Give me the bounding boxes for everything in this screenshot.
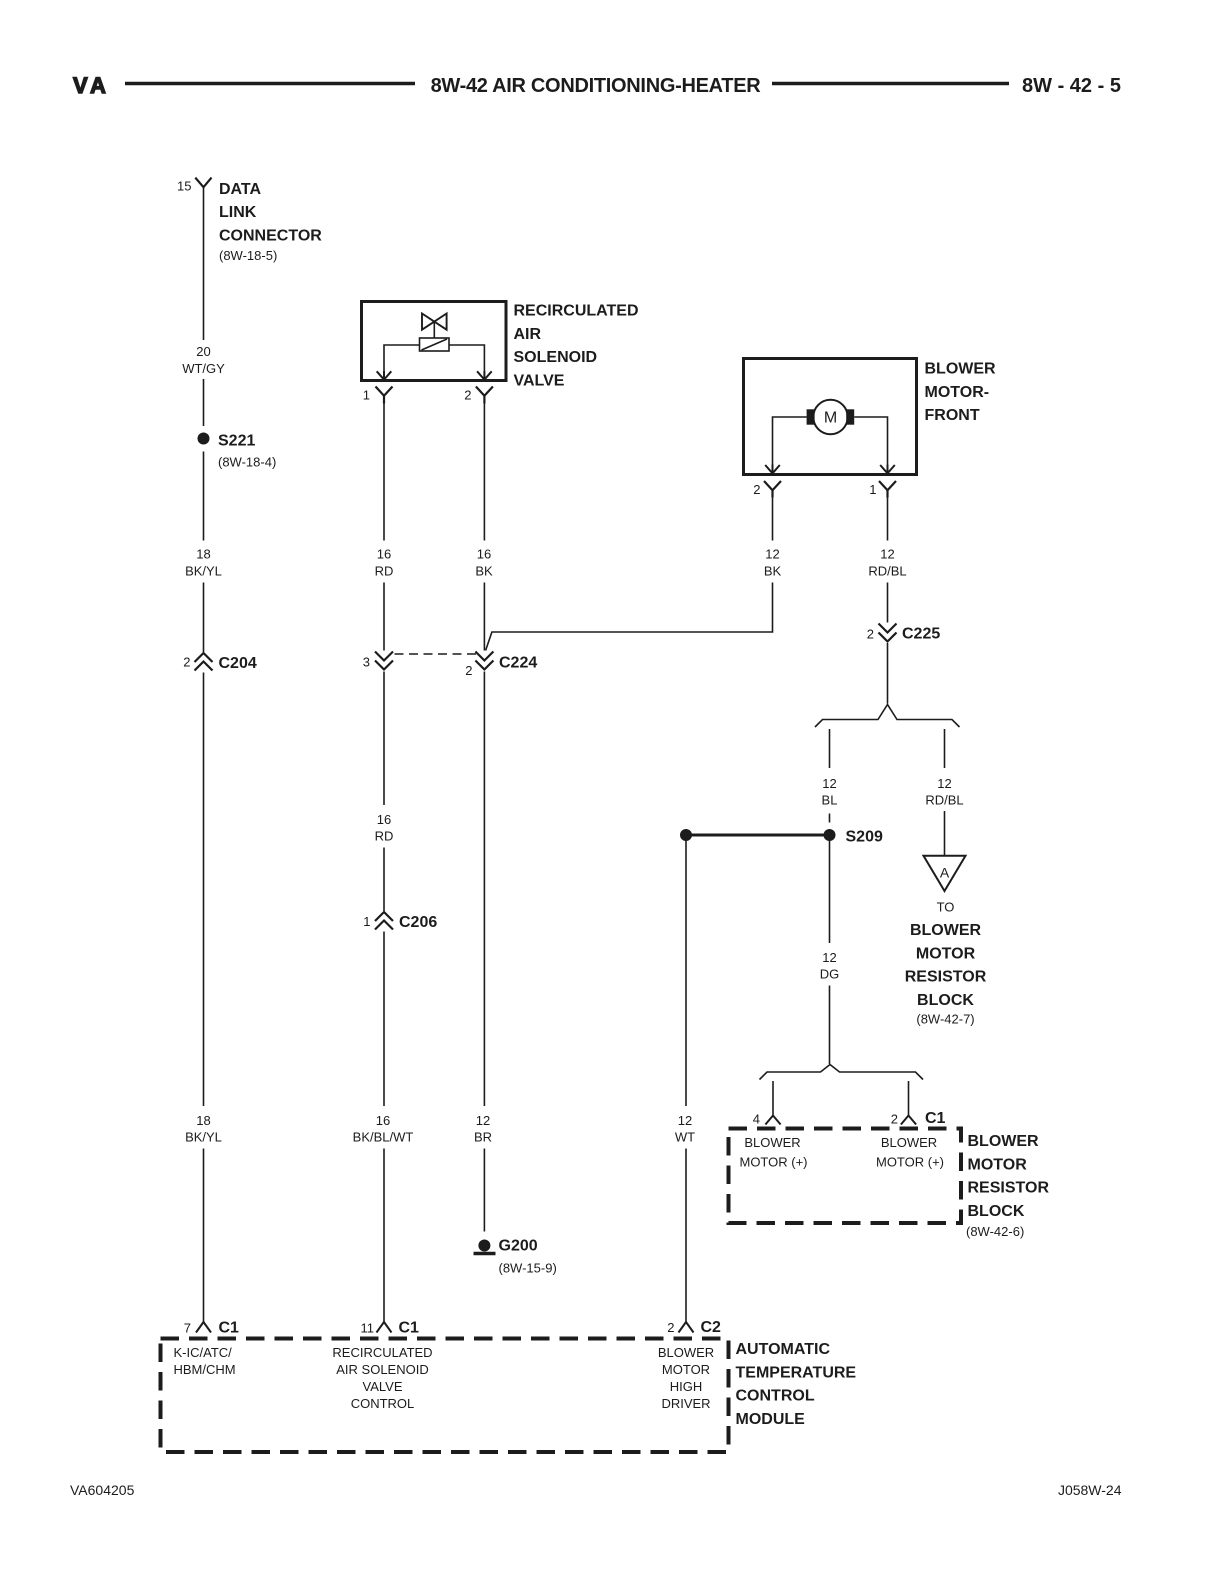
svg-text:TEMPERATURE: TEMPERATURE — [736, 1364, 857, 1381]
svg-text:RD: RD — [375, 564, 394, 579]
svg-text:RD/BL: RD/BL — [868, 564, 906, 579]
svg-text:BLOWER: BLOWER — [910, 922, 982, 939]
svg-text:S221: S221 — [218, 433, 255, 450]
svg-text:1: 1 — [363, 914, 370, 929]
wire BR from C224 to G200 — [483, 672, 485, 1107]
svg-text:WT/GY: WT/GY — [182, 361, 225, 376]
svg-text:S209: S209 — [846, 829, 883, 846]
svg-text:1: 1 — [363, 388, 370, 403]
wire WT from S209 junction to ATC module — [685, 841, 687, 1107]
svg-text:2: 2 — [465, 663, 472, 678]
svg-text:BLOCK: BLOCK — [968, 1203, 1025, 1220]
svg-text:CONTROL: CONTROL — [736, 1388, 815, 1405]
svg-text:18: 18 — [196, 1113, 210, 1128]
svg-text:AIR: AIR — [514, 326, 542, 343]
terminal label BLOWER MOTOR HIGH DRIVER — [658, 1345, 714, 1411]
svg-text:BK: BK — [764, 564, 782, 579]
svg-text:2: 2 — [667, 1320, 674, 1335]
svg-text:J058W-24: J058W-24 — [1058, 1482, 1122, 1498]
svg-text:MOTOR: MOTOR — [968, 1156, 1028, 1173]
wire BK/BL/WT from C206 to ATC module — [383, 932, 385, 1107]
svg-text:SOLENOID: SOLENOID — [514, 349, 598, 366]
module pin 2 fork symbol — [679, 1322, 694, 1333]
svg-text:C225: C225 — [902, 626, 940, 643]
header rule right — [772, 82, 1009, 85]
svg-text:BL: BL — [822, 793, 838, 808]
svg-text:16: 16 — [376, 1113, 390, 1128]
ground G200 symbol — [478, 1240, 490, 1252]
svg-text:BLOWER: BLOWER — [744, 1135, 800, 1150]
blower motor resistor block dashed box — [729, 1129, 962, 1224]
value label 12 RD/BL — [925, 776, 963, 808]
svg-text:RD/BL: RD/BL — [925, 793, 963, 808]
svg-text:RESISTOR: RESISTOR — [905, 969, 987, 986]
splice S209 junction dot — [824, 829, 836, 841]
wire BK from motor pin 2 — [772, 498, 774, 541]
internal wire left of motor — [773, 417, 807, 465]
value label 16 RD — [375, 812, 394, 844]
svg-text:2: 2 — [753, 482, 760, 497]
module pin 11 fork symbol — [377, 1322, 392, 1333]
wire junction run S209 to WT drop — [686, 834, 830, 837]
component label RECIRCULATED AIR SOLENOID VALVE — [514, 303, 639, 390]
wire — [829, 986, 831, 1065]
component label DATA LINK CONNECTOR — [219, 181, 322, 263]
svg-text:(8W-18-5): (8W-18-5) — [219, 248, 277, 263]
svg-text:12: 12 — [476, 1113, 490, 1128]
connector pin 15 Y symbol (DATA LINK CONNECTOR) — [195, 178, 211, 188]
motor brush left — [807, 409, 815, 424]
wire — [944, 811, 946, 855]
valve stem — [433, 322, 435, 338]
component label AUTOMATIC TEMPERATURE CONTROL MODULE — [736, 1341, 857, 1428]
value label 18 BK/YL — [185, 547, 222, 579]
off-page reference triangle A — [924, 856, 966, 891]
splice S221 — [198, 433, 210, 445]
value label 16 BK/BL/WT — [353, 1113, 414, 1145]
svg-text:C2: C2 — [701, 1319, 722, 1336]
component label BLOWER MOTOR RESISTOR BLOCK — [966, 1133, 1049, 1239]
valve pin 2 Y symbol — [476, 387, 493, 404]
svg-text:BLOWER: BLOWER — [925, 361, 997, 378]
connector C206 pin 1 (double chevron up) — [375, 912, 393, 930]
svg-text:15: 15 — [177, 179, 191, 194]
svg-text:G200: G200 — [499, 1238, 538, 1255]
internal arrow pin 2 — [765, 465, 780, 474]
wire — [383, 1149, 385, 1323]
svg-text:TO: TO — [937, 900, 955, 915]
value label 16 BK — [475, 547, 493, 579]
svg-text:BK: BK — [475, 564, 493, 579]
internal arrow pin 1 — [880, 465, 895, 474]
internal arrow pin 1 — [377, 371, 392, 380]
svg-text:C204: C204 — [219, 655, 257, 672]
wire — [203, 1149, 205, 1323]
svg-text:VALVE: VALVE — [514, 372, 565, 389]
svg-text:8W - 42 - 5: 8W - 42 - 5 — [1022, 75, 1121, 97]
svg-text:12: 12 — [822, 950, 836, 965]
terminal label RECIRCULATED AIR SOLENOID VALVE CONTROL — [332, 1345, 432, 1411]
valve pin 1 Y symbol — [376, 387, 393, 404]
recirculated air solenoid valve box — [362, 302, 507, 381]
component label BLOWER MOTOR-FRONT — [925, 361, 997, 425]
svg-text:11: 11 — [361, 1321, 375, 1336]
value label 20 WT/GY — [182, 344, 225, 376]
wire DG from S209 to lower brace — [829, 841, 831, 944]
wire BK from valve pin 2 — [483, 404, 485, 541]
wire — [203, 583, 205, 653]
svg-text:16: 16 — [377, 812, 391, 827]
svg-text:DG: DG — [820, 967, 840, 982]
wire RD from valve pin 1 — [383, 404, 385, 541]
internal wire left — [384, 345, 420, 372]
svg-text:VA604205: VA604205 — [70, 1482, 135, 1498]
svg-text:2: 2 — [183, 655, 190, 670]
svg-text:2: 2 — [867, 627, 874, 642]
wire dash above S209 — [829, 814, 831, 823]
svg-text:C1: C1 — [925, 1110, 946, 1127]
svg-text:FRONT: FRONT — [925, 407, 980, 424]
svg-text:BLOWER: BLOWER — [968, 1133, 1040, 1150]
header rule left — [125, 82, 415, 85]
motor brush right — [846, 409, 854, 424]
svg-text:M: M — [824, 410, 837, 427]
internal wire right of motor — [854, 417, 887, 465]
resistor pin 4 fork symbol — [765, 1116, 780, 1125]
connector C204 pin 2 (double chevron up) — [195, 653, 213, 671]
motor pin 2 Y symbol — [764, 481, 781, 498]
wire — [203, 379, 205, 426]
svg-text:VALVE: VALVE — [363, 1379, 403, 1394]
svg-text:MOTOR-: MOTOR- — [925, 384, 990, 401]
svg-text:12: 12 — [678, 1113, 692, 1128]
wire — [483, 583, 485, 651]
svg-text:3: 3 — [363, 655, 370, 670]
svg-text:WT: WT — [675, 1130, 695, 1145]
svg-text:MOTOR (+): MOTOR (+) — [876, 1155, 944, 1170]
svg-text:MOTOR: MOTOR — [916, 945, 976, 962]
svg-text:1: 1 — [869, 482, 876, 497]
wire RD/BL from C225 to splice brace — [887, 643, 889, 704]
svg-text:AUTOMATIC: AUTOMATIC — [736, 1341, 831, 1358]
connector C224 pin 2 (double chevron down) — [475, 652, 493, 670]
svg-text:(8W-18-4): (8W-18-4) — [218, 454, 276, 469]
motor M1 circle — [813, 400, 847, 434]
value label 12 BL — [822, 776, 838, 808]
svg-text:2: 2 — [464, 388, 471, 403]
svg-text:AIR SOLENOID: AIR SOLENOID — [336, 1362, 428, 1377]
svg-text:7: 7 — [184, 1321, 191, 1336]
svg-text:12: 12 — [822, 776, 836, 791]
svg-text:BK/YL: BK/YL — [185, 1130, 222, 1145]
svg-text:C224: C224 — [499, 655, 537, 672]
wire RD/BL from motor pin 1 — [887, 498, 889, 541]
wire branch to resistor pin 4 — [772, 1081, 774, 1116]
svg-text:(8W-42-7): (8W-42-7) — [916, 1012, 974, 1027]
solenoid coil diagonal — [422, 339, 448, 350]
connector C225 pin 2 (double chevron down) — [879, 624, 897, 642]
svg-text:BLOCK: BLOCK — [917, 992, 974, 1009]
terminal label BLOWER MOTOR (+) right — [876, 1135, 944, 1170]
svg-text:VA: VA — [73, 73, 110, 98]
solenoid coil box — [420, 338, 450, 351]
svg-text:BK/BL/WT: BK/BL/WT — [353, 1130, 414, 1145]
terminal label BLOWER MOTOR (+) left — [739, 1135, 807, 1170]
svg-text:RECIRCULATED: RECIRCULATED — [332, 1345, 432, 1360]
resistor pin 2 fork symbol — [901, 1116, 916, 1125]
svg-text:12: 12 — [880, 547, 894, 562]
value label 12 BR — [474, 1113, 492, 1145]
wire BK/YL from C204 to ATC module — [203, 673, 205, 1107]
wire — [483, 1149, 485, 1232]
bus brace (upper split) — [815, 705, 960, 728]
internal arrow pin 2 — [477, 371, 492, 380]
svg-text:(8W-15-9): (8W-15-9) — [499, 1261, 557, 1276]
valve symbol (bowtie) — [422, 314, 447, 330]
value label 12 DG — [820, 950, 840, 982]
svg-text:HIGH: HIGH — [670, 1379, 703, 1394]
svg-text:8W-42 AIR CONDITIONING-HEATER: 8W-42 AIR CONDITIONING-HEATER — [431, 75, 762, 97]
destination label TO BLOWER MOTOR RESISTOR BLOCK — [905, 900, 987, 1027]
svg-text:(8W-42-6): (8W-42-6) — [966, 1224, 1024, 1239]
svg-text:HBM/CHM: HBM/CHM — [174, 1362, 236, 1377]
dashed wire link C224 pin3 to pin2 — [395, 653, 478, 655]
svg-text:MOTOR (+): MOTOR (+) — [739, 1155, 807, 1170]
svg-text:MODULE: MODULE — [736, 1411, 806, 1428]
value label 16 RD — [375, 547, 394, 579]
svg-text:16: 16 — [477, 547, 491, 562]
automatic temperature control module dashed box — [161, 1339, 729, 1453]
svg-text:C1: C1 — [399, 1320, 420, 1337]
wire — [685, 1149, 687, 1323]
svg-text:BK/YL: BK/YL — [185, 564, 222, 579]
svg-text:C206: C206 — [399, 914, 437, 931]
value label 18 BK/YL — [185, 1113, 222, 1145]
motor pin 1 Y symbol — [879, 481, 896, 498]
bus brace (lower split) — [760, 1065, 924, 1080]
wire WT/GY from DLC pin 15 to S221 — [203, 187, 205, 340]
wire branch to resistor pin 2 — [908, 1081, 910, 1116]
svg-text:DRIVER: DRIVER — [661, 1396, 710, 1411]
connector C224 pin 3 (double chevron down) — [375, 652, 393, 670]
svg-text:C1: C1 — [219, 1320, 240, 1337]
svg-text:12: 12 — [765, 547, 779, 562]
value label 12 WT — [675, 1113, 695, 1145]
ground label G200 — [499, 1238, 557, 1276]
wire BK/YL from S221 to C204 — [203, 452, 205, 541]
wire BL branch from brace — [829, 729, 831, 768]
svg-text:BLOWER: BLOWER — [658, 1345, 714, 1360]
svg-text:4: 4 — [753, 1112, 760, 1127]
svg-text:DATA: DATA — [219, 181, 262, 198]
svg-text:12: 12 — [937, 776, 951, 791]
wire RD/BL branch from brace — [944, 729, 946, 768]
wire — [383, 848, 385, 912]
svg-text:A: A — [940, 865, 950, 881]
svg-text:RECIRCULATED: RECIRCULATED — [514, 303, 639, 320]
module pin 7 fork symbol — [196, 1322, 211, 1333]
svg-text:CONTROL: CONTROL — [351, 1396, 415, 1411]
internal wire right — [449, 345, 484, 372]
svg-text:BR: BR — [474, 1130, 492, 1145]
svg-text:BLOWER: BLOWER — [881, 1135, 937, 1150]
terminal label K-IC/ATC/HBM/CHM — [174, 1345, 236, 1377]
wire BK corner run to C224 pin 2 — [486, 583, 773, 651]
svg-text:RD: RD — [375, 829, 394, 844]
wire RD from C224 to C206 — [383, 672, 385, 806]
svg-text:LINK: LINK — [219, 204, 257, 221]
wire — [887, 583, 889, 623]
value label 12 RD/BL — [868, 547, 906, 579]
svg-text:MOTOR: MOTOR — [662, 1362, 710, 1377]
svg-text:18: 18 — [196, 547, 210, 562]
value label 12 BK — [764, 547, 782, 579]
svg-text:RESISTOR: RESISTOR — [968, 1180, 1050, 1197]
svg-text:16: 16 — [377, 547, 391, 562]
svg-text:20: 20 — [196, 344, 210, 359]
svg-text:K-IC/ATC/: K-IC/ATC/ — [174, 1345, 233, 1360]
blower motor front box — [744, 359, 917, 475]
svg-text:2: 2 — [891, 1112, 898, 1127]
node dot left of S209 — [680, 829, 692, 841]
svg-text:CONNECTOR: CONNECTOR — [219, 227, 322, 244]
wire — [383, 583, 385, 651]
